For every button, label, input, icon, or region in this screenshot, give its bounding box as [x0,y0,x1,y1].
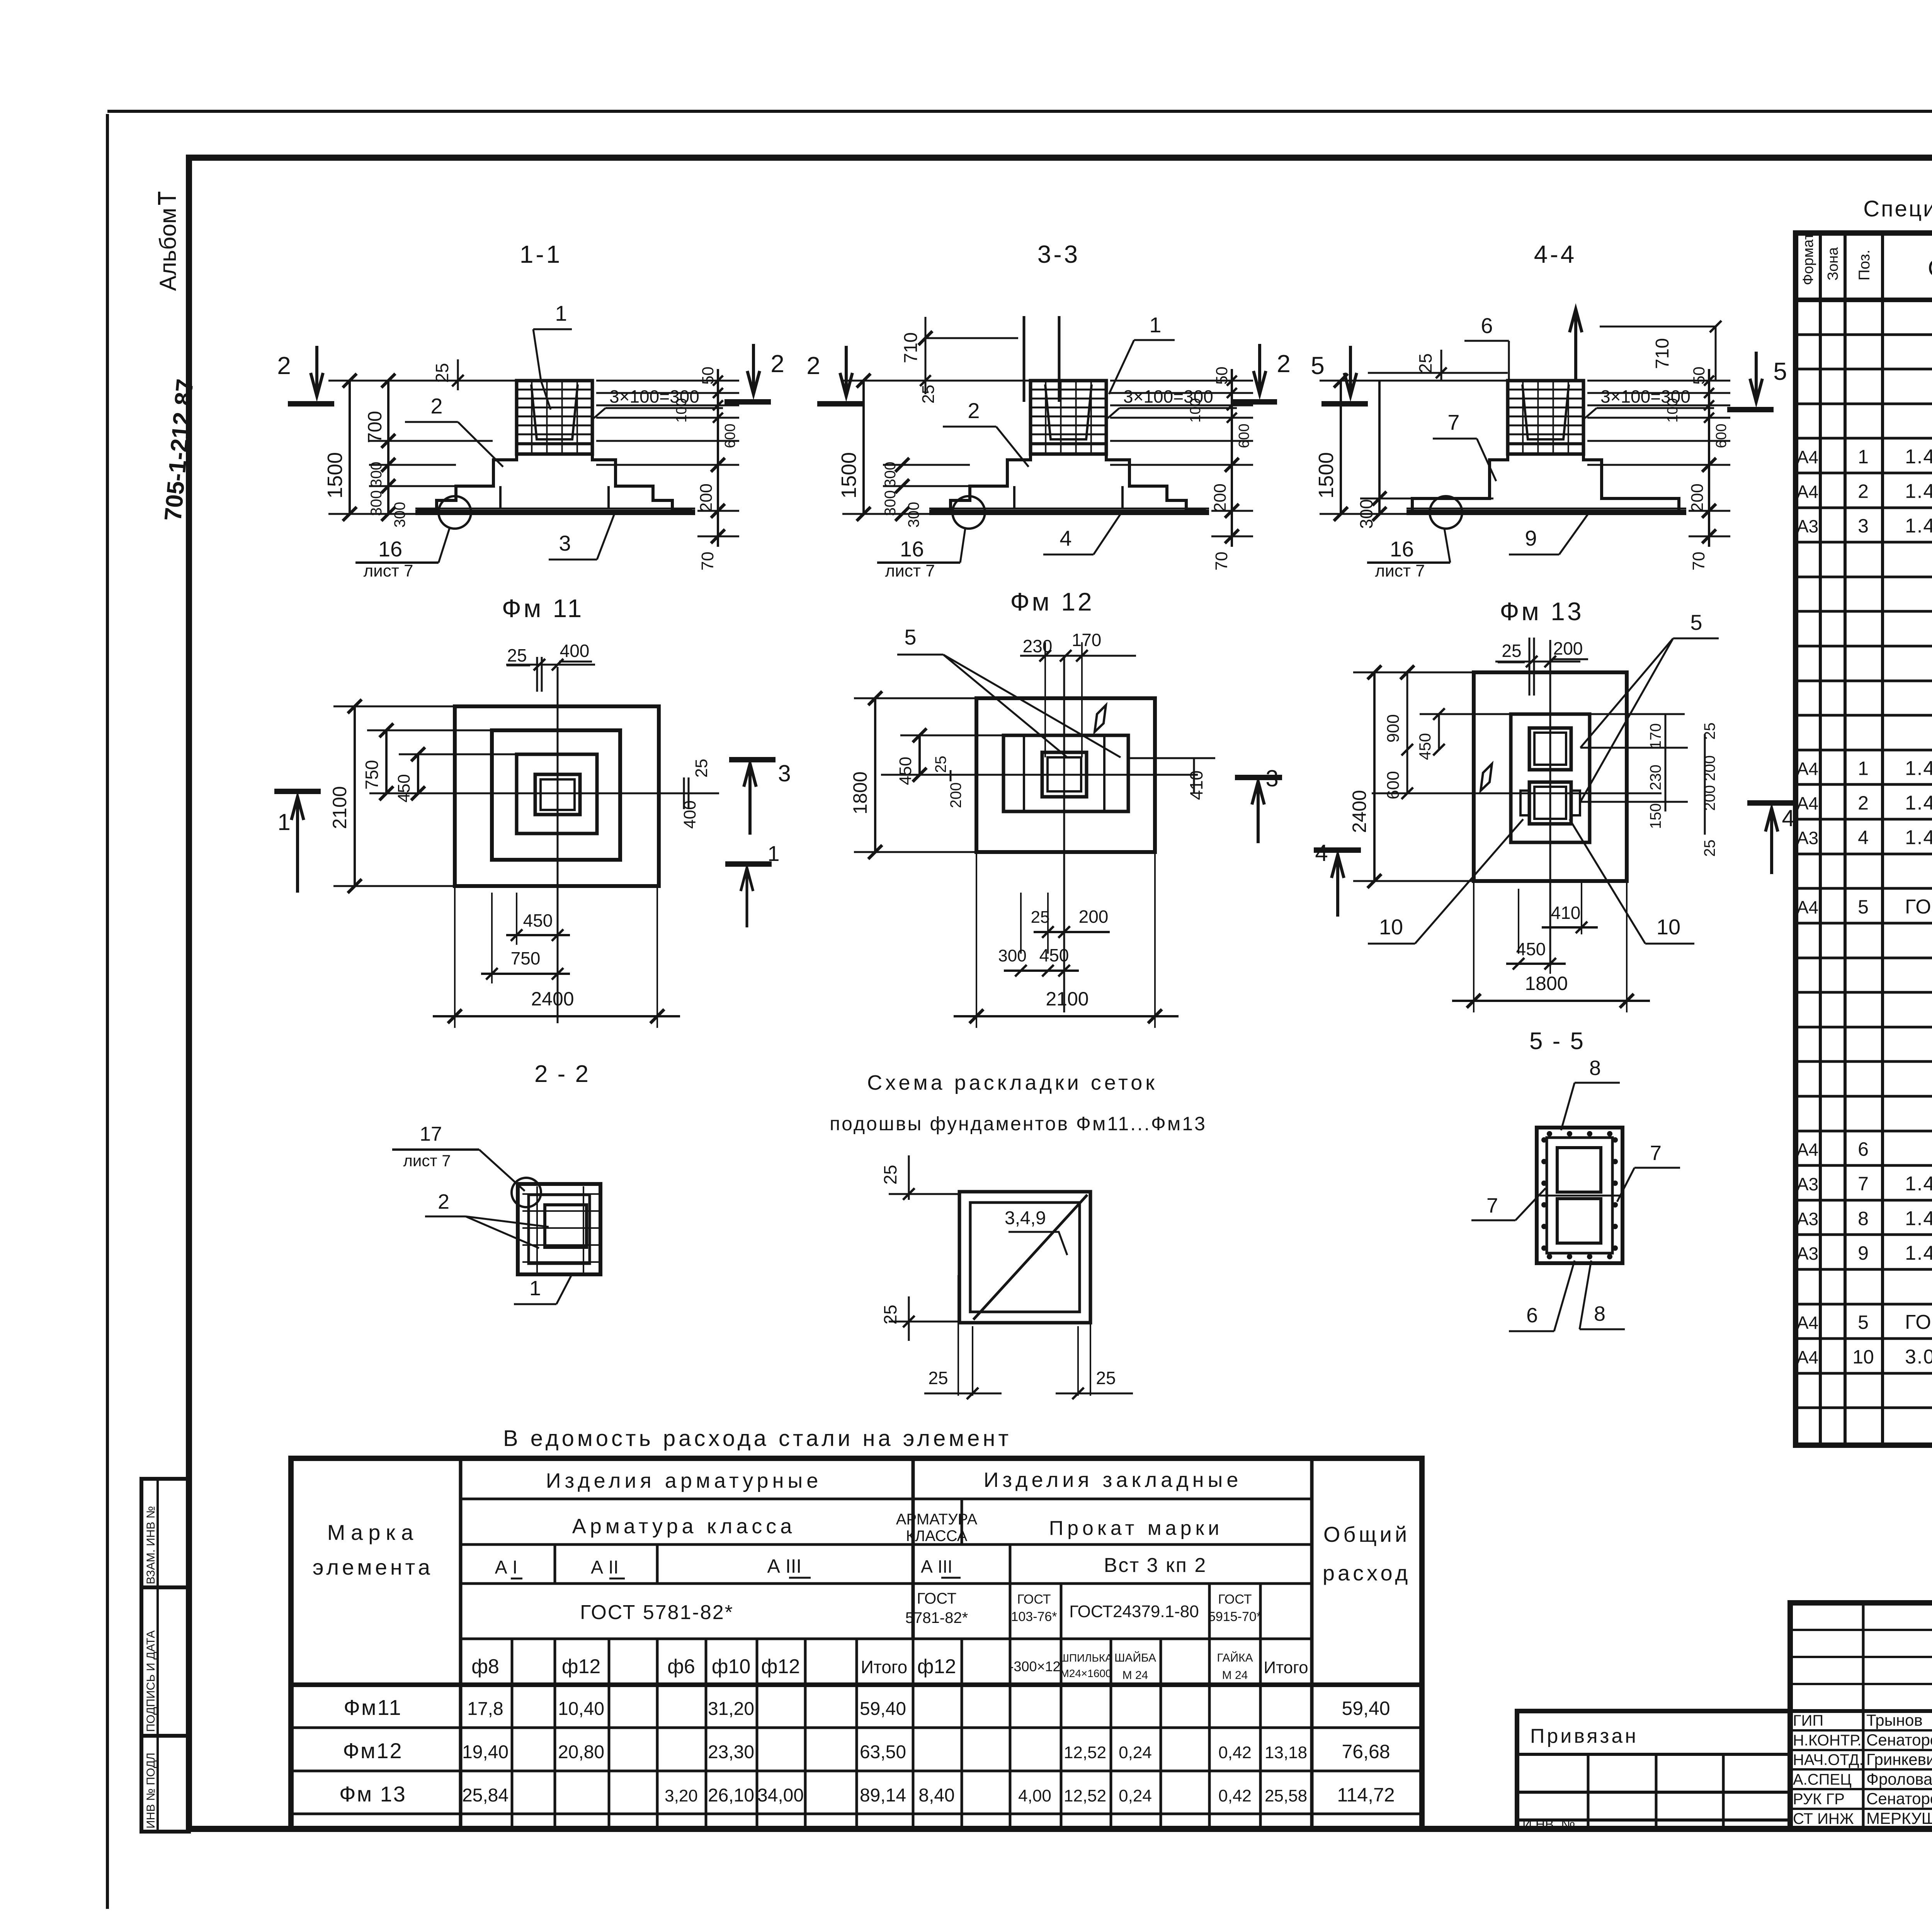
svg-text:705-1-212.87: 705-1-212.87 [160,378,199,522]
svg-text:ф12: ф12 [917,1655,956,1678]
svg-text:2: 2 [968,398,980,423]
svg-text:230: 230 [1023,636,1053,656]
section 1-1 left dims [349,381,351,514]
svg-text:34,00: 34,00 [757,1785,804,1806]
svg-text:50: 50 [1690,367,1708,385]
svg-text:Зона: Зона [1825,247,1841,281]
svg-text:1.410-3.1-01: 1.410-3.1-01 [1905,1207,1932,1230]
svg-text:ф6: ф6 [667,1655,695,1678]
svg-text:3×100=300: 3×100=300 [1600,386,1690,407]
svg-text:A4: A4 [1797,759,1818,779]
svg-text:АРМАТУРА: АРМАТУРА [896,1511,978,1528]
svg-text:59,40: 59,40 [1342,1698,1390,1719]
svg-text:200: 200 [947,782,964,808]
svg-text:Общий: Общий [1323,1522,1410,1546]
svg-text:25,84: 25,84 [462,1785,509,1806]
svg-text:2: 2 [806,352,820,379]
svg-text:300: 300 [882,490,899,516]
svg-text:ГОСТ: ГОСТ [1017,1592,1051,1607]
svg-text:3: 3 [1858,515,1869,537]
plan Fm13 left dims [1373,672,1376,881]
svg-text:7: 7 [1858,1173,1869,1195]
svg-text:НАЧ.ОТД.: НАЧ.ОТД. [1793,1752,1864,1769]
svg-text:Н.КОНТР.: Н.КОНТР. [1793,1732,1862,1749]
svg-text:1.412-1/77 - в.3-100: 1.412-1/77 - в.3-100 [1905,480,1932,503]
svg-text:ШАЙБА: ШАЙБА [1114,1651,1156,1664]
svg-text:Сенаторов: Сенаторов [1866,1731,1932,1749]
svg-text:6: 6 [1481,313,1493,338]
svg-text:5: 5 [1858,896,1869,918]
svg-text:ф10: ф10 [712,1655,751,1678]
svg-text:10,40: 10,40 [558,1699,604,1719]
svg-text:23,30: 23,30 [708,1742,754,1762]
svg-text:200: 200 [1211,483,1230,512]
steel table grid [291,1458,1422,1829]
svg-text:расход: расход [1323,1561,1411,1585]
plan Fm13 bottom dims [1549,881,1551,974]
svg-text:1.410-3.1-12: 1.410-3.1-12 [1905,1242,1932,1264]
plan Fm13 diamond mark [1481,764,1492,791]
svg-text:ГОСТ 24379.1-80: ГОСТ 24379.1-80 [1905,896,1932,918]
svg-text:5: 5 [1773,357,1787,385]
svg-text:Итого: Итого [861,1657,908,1677]
svg-text:1.410-3.1-04: 1.410-3.1-04 [1905,1173,1932,1195]
section 4-4 foundation [1508,381,1583,454]
plan Fm11 left dims [354,706,356,886]
svg-text:A4: A4 [1797,447,1818,467]
svg-text:300: 300 [391,502,408,528]
section 3-3 foundation [1031,381,1106,454]
svg-text:13,18: 13,18 [1265,1743,1307,1762]
svg-text:5: 5 [1690,610,1702,634]
svg-text:3: 3 [778,760,791,786]
svg-text:1500: 1500 [1315,452,1338,498]
svg-text:0,24: 0,24 [1119,1743,1152,1762]
svg-text:9: 9 [1525,526,1537,550]
svg-text:114,72: 114,72 [1337,1784,1395,1806]
svg-text:450: 450 [395,774,413,802]
section 3-3 anchor bolts [1023,316,1026,402]
svg-text:A3: A3 [1797,1209,1818,1229]
svg-text:10: 10 [1656,915,1680,939]
svg-text:25: 25 [507,645,527,665]
svg-text:ИНВ № ПОДЛ: ИНВ № ПОДЛ [145,1753,157,1829]
svg-text:1: 1 [1149,313,1161,337]
svg-text:25: 25 [1031,908,1050,927]
svg-text:A4: A4 [1797,897,1818,917]
svg-text:2: 2 [430,394,442,418]
svg-text:1.412-1/77 - в.3-020: 1.412-1/77 - в.3-020 [1905,757,1932,779]
svg-text:A4: A4 [1797,482,1818,502]
svg-text:-300×12: -300×12 [1009,1658,1060,1674]
svg-text:4: 4 [1060,526,1071,550]
svg-text:Спецификация элементов фундаме: Спецификация элементов фундаментов Фм11.… [1863,196,1932,221]
svg-text:подошвы фундаментов Фм11...Фм1: подошвы фундаментов Фм11...Фм13 [830,1113,1207,1135]
svg-text:Изделия закладные: Изделия закладные [984,1468,1242,1492]
title block [1790,1603,1932,1829]
svg-text:103-76*: 103-76* [1011,1609,1057,1624]
svg-text:Схема раскладки сеток: Схема раскладки сеток [867,1071,1158,1094]
svg-text:Формат: Формат [1800,233,1816,285]
svg-text:700: 700 [364,411,386,443]
svg-text:лист 7: лист 7 [363,561,413,580]
svg-text:ф12: ф12 [761,1655,800,1678]
svg-text:А III: А III [921,1556,952,1577]
svg-text:750: 750 [511,948,541,968]
svg-text:Фм 11: Фм 11 [502,594,584,623]
svg-text:25: 25 [1502,641,1521,661]
svg-text:Альбом I: Альбом I [155,195,181,291]
svg-text:25: 25 [1415,353,1435,373]
svg-text:Прокат марки: Прокат марки [1049,1517,1223,1539]
svg-text:2: 2 [277,352,291,379]
svg-text:410: 410 [1551,903,1581,923]
plan Fm12 outline [976,698,1155,852]
svg-text:1: 1 [1858,446,1869,468]
svg-text:5: 5 [1311,352,1325,379]
svg-text:4: 4 [1782,805,1794,831]
svg-text:1800: 1800 [849,771,871,814]
svg-text:A3: A3 [1797,828,1818,848]
svg-text:3,4,9: 3,4,9 [1005,1208,1046,1228]
svg-text:4: 4 [1315,840,1328,866]
svg-text:1.410-3 1-12: 1.410-3 1-12 [1905,515,1932,537]
svg-text:0,24: 0,24 [1119,1786,1152,1805]
svg-text:А I: А I [495,1557,518,1578]
section 4-4 anchor bolt with arrow [1574,309,1577,381]
svg-text:710: 710 [1652,338,1673,369]
plan Fm12 diamond mark [1095,705,1106,732]
svg-text:7: 7 [1447,410,1459,434]
svg-text:РУК ГР: РУК ГР [1793,1791,1845,1808]
svg-text:59,40: 59,40 [860,1699,906,1719]
section 3-3 top dim 710 [925,337,1018,339]
svg-text:A3: A3 [1797,1243,1818,1264]
section 3-3 right dims [1231,369,1233,547]
svg-text:2400: 2400 [531,988,574,1010]
svg-text:12,52: 12,52 [1064,1786,1106,1805]
svg-text:4: 4 [1858,827,1869,849]
plan Fm13 top dims 25 200 [1495,661,1580,663]
section 4-4 left dims [1340,381,1342,514]
svg-text:600: 600 [1384,771,1403,799]
svg-text:A4: A4 [1797,1140,1818,1160]
svg-text:2: 2 [1277,350,1291,378]
svg-text:1.410-3.1-12: 1.410-3.1-12 [1905,827,1932,849]
svg-text:КЛАССА: КЛАССА [906,1527,968,1544]
svg-text:Фм 13: Фм 13 [339,1782,406,1806]
svg-text:A3: A3 [1797,516,1818,536]
svg-text:450: 450 [1039,945,1069,965]
svg-text:ф8: ф8 [471,1655,499,1678]
svg-text:3×100=300: 3×100=300 [1123,386,1213,407]
section 1-1 right dims [717,369,719,547]
svg-text:Фм11: Фм11 [344,1695,402,1720]
section 3-3 left dims [862,381,865,514]
svg-text:200: 200 [1688,483,1707,512]
section 4-4 dim 710 right [1600,326,1716,328]
svg-text:230: 230 [1647,765,1664,791]
svg-text:5915-70*: 5915-70* [1208,1609,1262,1624]
plan Fm12 left dims [874,698,876,852]
svg-text:А III: А III [767,1555,802,1577]
svg-text:A4: A4 [1797,1313,1818,1333]
svg-text:ГИП: ГИП [1793,1712,1823,1729]
svg-text:Фм 13: Фм 13 [1500,597,1583,626]
plan Fm12 center lines [881,774,1198,776]
svg-text:26,10: 26,10 [708,1785,754,1806]
svg-text:10: 10 [1852,1346,1874,1368]
svg-text:М 24: М 24 [1222,1669,1248,1682]
svg-text:19,40: 19,40 [462,1742,509,1762]
svg-text:0,42: 0,42 [1218,1743,1252,1762]
svg-text:2400: 2400 [1349,790,1370,833]
svg-text:1.412-1/7 - в.3-020: 1.412-1/7 - в.3-020 [1905,446,1932,468]
svg-text:лист 7: лист 7 [1375,561,1425,580]
svg-text:ГОСТ: ГОСТ [917,1590,957,1607]
svg-text:Арматура класса: Арматура класса [572,1515,796,1538]
plan Fm11 nested squares [455,706,659,886]
plan Fm12 bottom dims [1020,893,1022,954]
section 1-1 foundation [517,381,592,454]
plan Fm13 right dims [1665,714,1667,811]
svg-text:1: 1 [555,301,567,325]
svg-text:3,20: 3,20 [665,1786,698,1805]
svg-text:300: 300 [882,462,899,488]
svg-text:17,8: 17,8 [467,1699,503,1719]
svg-text:В едомость расхода стали на: В едомость расхода стали на элемент [503,1426,1012,1451]
svg-text:Фролова: Фролова [1866,1770,1932,1788]
svg-text:25: 25 [692,759,711,778]
svg-text:1: 1 [277,809,290,835]
svg-text:6: 6 [1526,1304,1538,1327]
svg-text:МЕРКУШИНА: МЕРКУШИНА [1866,1809,1932,1827]
svg-text:300: 300 [998,946,1026,965]
svg-text:17: 17 [420,1123,442,1145]
svg-text:170: 170 [1647,723,1664,749]
svg-text:6: 6 [1858,1138,1869,1160]
plan Fm12 top dims 230 170 [1020,655,1136,657]
svg-text:И НВ. №: И НВ. № [1522,1817,1575,1832]
svg-text:3-3: 3-3 [1037,240,1080,268]
svg-text:450: 450 [1416,733,1434,760]
svg-text:600: 600 [1713,424,1730,448]
svg-text:3.019-1.1-МН1.0СБ: 3.019-1.1-МН1.0СБ [1905,1346,1932,1368]
svg-text:600: 600 [1236,424,1252,448]
svg-text:450: 450 [523,910,553,930]
plan Fm11 center lines [369,793,719,794]
svg-text:7: 7 [1650,1141,1662,1165]
svg-text:М24×1600: М24×1600 [1060,1667,1111,1679]
svg-text:200: 200 [1079,907,1109,927]
plan Fm11 top dims 25 400 [506,664,595,666]
svg-text:200: 200 [1553,638,1583,658]
svg-text:8: 8 [1589,1056,1601,1080]
schema square with diagonal [959,1192,1090,1323]
svg-text:А II: А II [591,1557,619,1578]
svg-text:1500: 1500 [323,452,347,498]
svg-text:3: 3 [559,531,571,555]
svg-text:Обозначение: Обозначение [1928,255,1932,282]
svg-text:300: 300 [368,462,385,488]
margin stamp boxes [141,1479,189,1587]
svg-text:ГОСТ 24379.1-80: ГОСТ 24379.1-80 [1905,1311,1932,1334]
svg-text:А.СПЕЦ: А.СПЕЦ [1793,1771,1852,1788]
svg-text:70: 70 [1212,552,1231,571]
svg-text:Сенаторов: Сенаторов [1866,1789,1932,1808]
outer sheet border [106,114,109,1909]
svg-text:9: 9 [1858,1242,1869,1264]
svg-text:25: 25 [932,756,949,773]
svg-text:лист 7: лист 7 [403,1152,451,1170]
svg-text:ГОСТ: ГОСТ [1218,1592,1252,1607]
svg-text:300: 300 [905,502,922,528]
svg-text:1.412-1/77 - в.3-100: 1.412-1/77 - в.3-100 [1905,792,1932,814]
svg-text:ВЗАМ. ИНВ №: ВЗАМ. ИНВ № [145,1506,157,1584]
svg-text:76,68: 76,68 [1342,1741,1390,1762]
svg-text:89,14: 89,14 [860,1785,906,1806]
svg-text:элемента: элемента [313,1555,433,1579]
svg-text:3×100=300: 3×100=300 [609,386,699,407]
svg-text:450: 450 [896,757,915,785]
svg-text:400: 400 [560,641,590,661]
svg-text:Изделия арматурные: Изделия арматурные [546,1469,822,1492]
svg-text:20,80: 20,80 [558,1742,604,1762]
svg-text:2: 2 [438,1190,449,1213]
svg-text:Привязан: Привязан [1530,1725,1638,1747]
svg-text:Фм12: Фм12 [343,1738,403,1763]
svg-text:A4: A4 [1797,1347,1818,1368]
svg-text:5: 5 [1858,1311,1869,1333]
plan Fm13 center lines [1372,793,1662,794]
svg-text:16: 16 [378,537,402,561]
svg-text:2: 2 [1858,792,1869,814]
svg-text:1500: 1500 [837,452,861,498]
svg-text:Марка: Марка [327,1520,418,1544]
svg-text:Трынов: Трынов [1866,1711,1923,1729]
svg-text:1: 1 [529,1277,541,1300]
detail 5-5 mesh rect [1537,1128,1622,1263]
svg-text:ГОСТ 5781-82*: ГОСТ 5781-82* [580,1601,734,1624]
plan Fm11 bottom dims [516,893,517,945]
svg-text:A4: A4 [1797,793,1818,813]
privyazan table [1517,1711,1790,1829]
svg-text:50: 50 [1213,367,1231,385]
svg-text:710: 710 [901,332,921,363]
svg-text:5781-82*: 5781-82* [905,1609,968,1626]
plan Fm12 right dim 410 [1193,758,1195,793]
svg-text:150: 150 [1647,803,1664,829]
svg-text:лист 7: лист 7 [885,561,935,580]
svg-text:ф12: ф12 [562,1655,601,1678]
svg-text:170: 170 [1072,630,1102,650]
specification table grid [1796,233,1932,1445]
svg-text:8: 8 [1594,1302,1605,1325]
svg-text:31,20: 31,20 [708,1699,754,1719]
svg-text:Гринкевич: Гринкевич [1866,1750,1932,1769]
svg-text:70: 70 [698,552,717,571]
svg-text:A3: A3 [1797,1174,1818,1194]
svg-text:50: 50 [699,367,717,385]
svg-text:М 24: М 24 [1122,1669,1148,1682]
svg-text:2: 2 [770,350,784,378]
svg-text:25: 25 [880,1165,900,1184]
svg-text:ШПИЛЬКА: ШПИЛЬКА [1059,1652,1112,1664]
svg-text:25: 25 [919,385,938,404]
inner frame [189,158,1932,1829]
svg-text:4,00: 4,00 [1018,1786,1051,1805]
svg-text:63,50: 63,50 [860,1742,906,1762]
svg-text:300: 300 [1356,499,1376,529]
svg-text:2100: 2100 [1046,988,1088,1010]
svg-text:8,40: 8,40 [918,1785,954,1806]
svg-text:600: 600 [722,424,738,448]
svg-text:410: 410 [1186,771,1206,800]
svg-text:16: 16 [900,537,924,561]
svg-text:2: 2 [1858,481,1869,502]
svg-text:4-4: 4-4 [1534,240,1577,268]
svg-text:2100: 2100 [329,786,350,829]
svg-text:16: 16 [1390,537,1414,561]
svg-text:200: 200 [697,483,716,512]
svg-text:70: 70 [1689,552,1708,571]
svg-text:1800: 1800 [1525,973,1568,994]
svg-text:СТ ИНЖ: СТ ИНЖ [1793,1810,1854,1827]
svg-text:750: 750 [362,760,382,790]
svg-text:Итого: Итого [1264,1658,1308,1677]
svg-text:Вст 3 кп 2: Вст 3 кп 2 [1104,1554,1207,1577]
svg-text:25,58: 25,58 [1265,1786,1307,1805]
svg-text:25: 25 [1701,840,1718,857]
svg-text:25: 25 [1096,1368,1116,1388]
svg-text:Фм 12: Фм 12 [1010,587,1094,616]
svg-text:10: 10 [1379,915,1403,939]
svg-text:1-1: 1-1 [520,240,563,268]
plan Fm13 outline [1474,672,1627,881]
svg-text:0,42: 0,42 [1218,1786,1252,1805]
svg-text:Поз.: Поз. [1856,250,1873,281]
svg-text:8: 8 [1858,1208,1869,1229]
svg-text:5: 5 [904,625,916,649]
svg-text:2 - 2: 2 - 2 [534,1061,590,1087]
svg-text:ГАЙКА: ГАЙКА [1217,1651,1253,1664]
svg-text:900: 900 [1384,714,1403,742]
svg-text:7: 7 [1486,1194,1498,1217]
svg-text:ГОСТ24379.1-80: ГОСТ24379.1-80 [1069,1602,1199,1621]
svg-text:1: 1 [1858,757,1869,779]
svg-text:5 - 5: 5 - 5 [1529,1028,1585,1055]
svg-text:12,52: 12,52 [1064,1743,1106,1762]
svg-text:450: 450 [1516,939,1546,959]
svg-text:300: 300 [368,490,385,516]
svg-text:25: 25 [928,1368,948,1388]
svg-text:ПОДПИСЬ И ДАТА: ПОДПИСЬ И ДАТА [145,1630,157,1732]
section 4-4 right dims [1708,369,1710,547]
detail 2-2 mesh square [518,1184,600,1274]
